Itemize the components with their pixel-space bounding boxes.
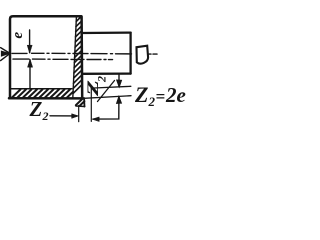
vertical Z2: down arrow (118, 74, 120, 87)
body bottom edge (9, 97, 84, 100)
lower axis (hole axis, dash-dot) (13, 58, 113, 61)
vertical Z2: up arrow with L-shaft (93, 97, 119, 119)
left arrowhead of bottom-right shaft (92, 117, 99, 122)
extension line left (x=78.7) (78, 106, 80, 122)
leader line from Z2 label (98, 81, 115, 102)
wedge hatching (73, 18, 82, 94)
svg-text:2: 2 (42, 109, 49, 123)
svg-text:2: 2 (95, 76, 109, 83)
body right edge / wedge right face (80, 17, 83, 99)
upper dim line of vertical Z2 gap (91, 86, 131, 88)
wedge left slant edge (73, 17, 77, 98)
wedge protrusion below body (83, 99, 85, 107)
rotated label Z2 (84, 76, 108, 97)
upper axis (rod axis, dash-dot) (12, 52, 157, 55)
svg-text:Z: Z (29, 97, 43, 121)
svg-text:Z2=2e: Z2=2e (134, 82, 186, 109)
rod bottom edge (84, 72, 131, 75)
extension line right (x=91.3) (90, 87, 92, 121)
bottom Z2 dimension: left arrow (50, 115, 77, 117)
rod (stem) top edge (83, 31, 131, 34)
dimension e: lower arrow (up), shaft down to strip (29, 60, 31, 89)
right arrow symbol at rod end (137, 46, 149, 64)
body (housing) outline (10, 16, 81, 98)
rod right edge (129, 33, 131, 74)
dimension e: upper arrow (down) (29, 30, 31, 53)
svg-text:e: e (10, 32, 26, 39)
bottom hatched strip inside body (section) (11, 88, 72, 90)
bottom edge extension to right (lower dim line) (84, 96, 131, 99)
left force arrow on rod axis (1, 48, 10, 54)
